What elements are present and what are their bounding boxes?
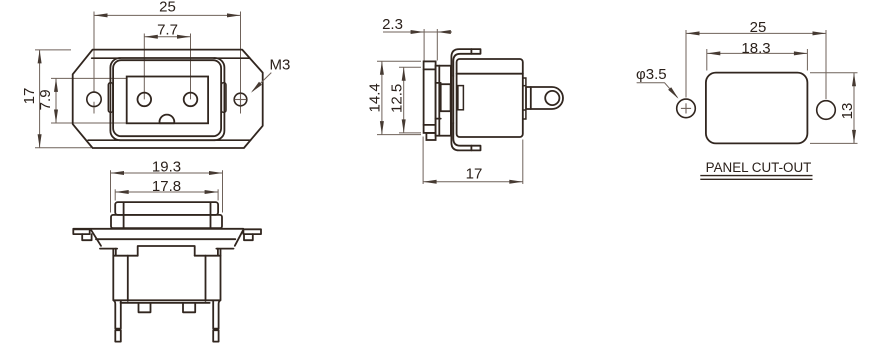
dim 7.9 extension bottom — [51, 122, 126, 124]
svg-text:2.3: 2.3 — [382, 16, 403, 33]
solder tab right — [183, 303, 195, 312]
pin right — [184, 93, 198, 107]
shroud inner wall left — [123, 203, 125, 228]
dim 2.3 extension left — [423, 29, 425, 61]
flange bar bottom seam — [424, 124, 436, 126]
flange top edge — [73, 228, 243, 230]
view 1: front view of inlet — [21, 0, 291, 148]
svg-text:7.9: 7.9 — [37, 89, 54, 110]
body inner wall right — [205, 256, 207, 301]
shroud inner wall right — [210, 203, 212, 228]
solder terminal — [526, 87, 563, 109]
svg-text:M3: M3 — [270, 56, 291, 73]
dim 13 line — [853, 73, 855, 144]
svg-text:19.3: 19.3 — [152, 159, 181, 176]
dim 25 extension line left (through mounting hole) — [93, 12, 95, 93]
flange bevel edge bottom-right — [214, 139, 251, 141]
body pocket right — [195, 249, 221, 256]
dim 7.7 centerline right pin — [190, 34, 192, 100]
dim 25 extension left — [685, 30, 687, 98]
shroud step lines — [436, 82, 441, 84]
dim 17 line — [39, 50, 41, 148]
dim 17.8 line — [115, 191, 218, 193]
polarisation notch arc — [160, 115, 175, 124]
svg-text:25: 25 — [750, 19, 767, 36]
dim 12.5 extension bottom — [399, 132, 421, 134]
flange octagonal outline — [73, 50, 263, 148]
shroud block — [436, 66, 451, 136]
solder tab left — [139, 303, 151, 312]
svg-text:17: 17 — [466, 165, 483, 182]
snap hook top — [451, 49, 480, 76]
dim 18.3 extension left — [706, 49, 708, 71]
svg-text:12.5: 12.5 — [389, 84, 406, 113]
socket boss outer lip rounded rect — [110, 58, 224, 140]
svg-text:14.4: 14.4 — [366, 83, 383, 112]
view 2: bottom view — [73, 159, 261, 342]
socket face rounded rect — [113, 60, 221, 136]
flange bevel diagonal right — [235, 230, 243, 246]
dim 17 extension left — [422, 137, 424, 185]
svg-text:25: 25 — [159, 0, 176, 16]
dim 17.8 extension left — [114, 189, 116, 200]
dim 7.7 line — [144, 36, 190, 38]
dim 12.5 extension top — [399, 66, 421, 68]
side latch bump right — [221, 83, 226, 113]
body shoulder top right — [216, 248, 233, 250]
dim 17.8 extension right — [217, 189, 219, 200]
side latch bump left — [108, 83, 113, 113]
main body — [457, 59, 523, 137]
body right tab lower — [523, 110, 526, 119]
title underline double — [700, 175, 812, 177]
svg-text:17: 17 — [21, 88, 38, 105]
body inner wall left — [127, 256, 129, 301]
view 3: side view — [366, 16, 563, 184]
mating shroud upper part — [115, 202, 218, 215]
dim 2.3 line — [383, 31, 452, 33]
leg left upper — [114, 301, 121, 329]
body pocket left — [113, 249, 137, 256]
leg right lower — [213, 330, 218, 341]
svg-text:φ3.5: φ3.5 — [636, 66, 667, 83]
body bottom second edge — [121, 302, 210, 304]
snap hook shank lines — [450, 76, 452, 123]
screw hole right — [817, 101, 836, 120]
dim 17 extension bottom — [35, 147, 91, 149]
body outline — [113, 250, 220, 301]
flange bevel edge top-left — [92, 57, 120, 59]
flange bar lower boss — [426, 133, 435, 140]
screw hole left with cross — [677, 99, 696, 118]
phi 3.5 leader line — [637, 83, 677, 98]
flange bevel edge bottom-left — [88, 139, 120, 141]
flange bottom edge — [96, 238, 235, 240]
terminal seam — [530, 87, 532, 109]
dim 2.3 extension right — [436, 29, 438, 61]
dim 12.5 line — [403, 67, 405, 133]
dim 13 extension top — [810, 72, 858, 74]
dim 25 line — [686, 32, 826, 34]
dim 17 extension right — [522, 140, 524, 185]
mating shroud lower part — [111, 215, 222, 228]
left mounting hole — [87, 92, 101, 106]
view 4: panel cut-out — [636, 19, 858, 179]
flange end step right — [244, 234, 253, 240]
dim 17 extension top — [35, 49, 71, 51]
recess rectangle — [127, 77, 208, 124]
dim 25 extension line right (through M3 hole) — [240, 12, 242, 114]
flange bevel edge top-right — [214, 57, 250, 59]
svg-text:PANEL CUT-OUT: PANEL CUT-OUT — [706, 160, 812, 175]
dim 7.7 centerline left pin — [143, 34, 145, 100]
svg-text:13: 13 — [839, 103, 856, 120]
dim 25 extension right — [825, 30, 827, 99]
terminal hole — [545, 91, 559, 105]
leg right upper — [213, 301, 220, 329]
M3 mounting hole with cross — [234, 93, 247, 106]
svg-text:7.7: 7.7 — [157, 21, 178, 38]
dim 18.3 line — [707, 52, 808, 54]
dim 19.3 line — [111, 172, 223, 174]
dim 7.9 line — [55, 78, 57, 123]
panel flange bar — [424, 61, 436, 132]
dim 25 line — [94, 14, 241, 16]
dim 17 line — [423, 181, 523, 183]
leg left lower — [115, 330, 121, 341]
M3 leader line — [253, 73, 272, 92]
dim 14.4 line — [381, 61, 383, 134]
dim 19.3 extension left — [110, 170, 112, 212]
dim 19.3 extension right — [222, 170, 224, 212]
flange end step left — [82, 234, 91, 240]
body shoulder top left — [100, 248, 117, 250]
cut-out rounded rectangle — [706, 73, 808, 144]
flange bar top seam — [424, 68, 436, 70]
body seam line — [457, 73, 523, 75]
dim 14.4 extension bottom — [377, 134, 421, 136]
dim 18.3 extension right — [806, 49, 808, 71]
body left pad — [458, 86, 464, 110]
body right tab upper — [523, 78, 526, 86]
body centre platform — [138, 246, 195, 256]
shroud recess panel — [441, 84, 451, 111]
flange bevel diagonal left — [91, 230, 101, 246]
dim 13 extension bottom — [810, 142, 858, 144]
dim 7.9 extension top — [51, 77, 126, 79]
dim 14.4 extension top — [377, 60, 421, 62]
shroud step line — [438, 66, 440, 136]
flange end tab right — [243, 229, 261, 234]
snap hook bottom — [451, 123, 480, 150]
svg-text:18.3: 18.3 — [741, 40, 770, 57]
svg-text:17.8: 17.8 — [152, 178, 181, 195]
pin left — [138, 93, 152, 107]
flange end tab left — [73, 229, 89, 234]
